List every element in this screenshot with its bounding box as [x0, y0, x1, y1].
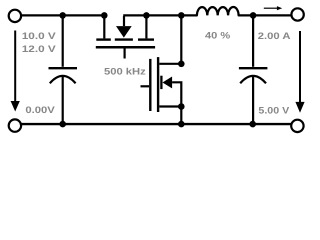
- svg-text:2.00 A: 2.00 A: [258, 30, 291, 41]
- svg-text:5.00 V: 5.00 V: [258, 104, 290, 115]
- svg-text:500 kHz: 500 kHz: [104, 66, 146, 77]
- svg-text:40 %: 40 %: [205, 30, 231, 41]
- svg-text:12.0 V: 12.0 V: [22, 43, 57, 54]
- svg-text:10.0 V: 10.0 V: [22, 30, 57, 41]
- svg-text:0.00V: 0.00V: [25, 104, 55, 115]
